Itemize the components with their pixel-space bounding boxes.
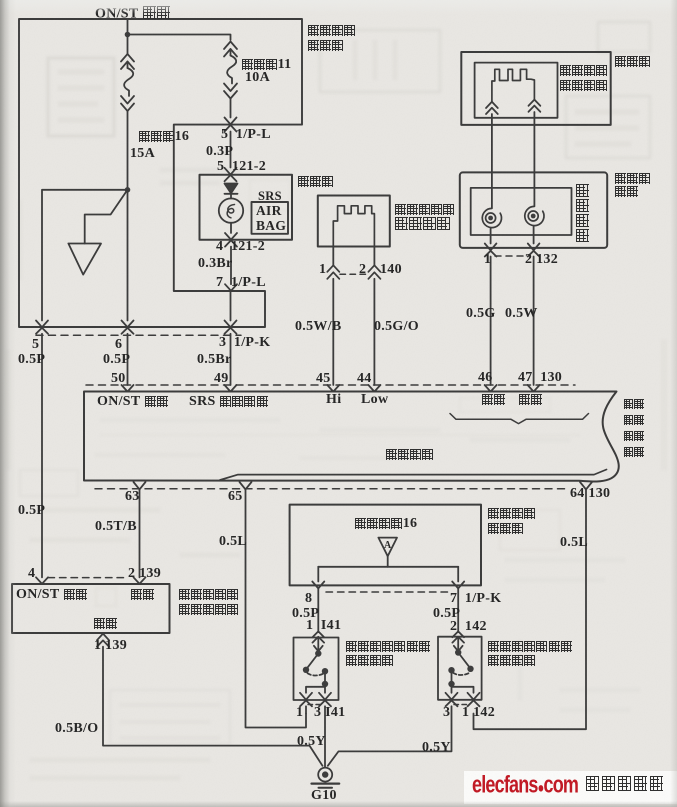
label wire 0.5L right [560, 536, 588, 550]
label wire 0.5P mid [103, 353, 130, 367]
left switch contacts and arm [303, 650, 328, 693]
label wire 0.5Y right [422, 741, 451, 755]
label ECU near side [481, 393, 505, 407]
label sensor pin 4 [28, 567, 35, 581]
ECU pin 47 arrow [528, 385, 540, 392]
label multifunction switch line1 [614, 172, 651, 186]
driver squib connector chevrons right [529, 100, 541, 112]
label ECU pin 65 [228, 490, 243, 504]
right switch pin 1 arrow at bottom edge [468, 693, 480, 707]
label ECU buckle switch [385, 448, 434, 462]
triangle connection symbol [68, 244, 101, 275]
connector 139?-dashed line below junction box [36, 334, 241, 336]
wire 0.5P pin6 to ECU pin50 [127, 334, 129, 385]
connector dashed line below bottom junction box [326, 591, 452, 593]
label ECU pin 46 [478, 371, 493, 385]
label instrument panel [297, 175, 334, 189]
label right switch pin 1 142 [462, 706, 495, 720]
wire 0.5W/B to ECU pin45 [332, 279, 334, 385]
label ECU Hi [326, 393, 341, 407]
label clock spring vertical [575, 184, 589, 200]
ECU pin 64 arrow [580, 482, 592, 489]
right switch entry wire + arrowhead [454, 638, 463, 651]
label AIR BAG [256, 204, 286, 233]
label left switch pin 1 [296, 706, 303, 720]
ECU pin 49 arrow [225, 385, 237, 392]
clock spring box 时钟弹簧 [471, 188, 572, 235]
label wire 0.5G [466, 307, 496, 321]
passenger airbag box 前排乘客侧安全气囊 [318, 196, 390, 247]
wire 0.5G down to ECU pin46 [490, 257, 492, 386]
left switch pin 1 arrow at bottom edge [300, 693, 312, 707]
label multifunction switch line2 [614, 185, 638, 199]
label airbag connector 140 [380, 263, 402, 277]
sensor pin 4 arrow [36, 577, 48, 584]
right switch contacts and arm [448, 649, 473, 693]
left switch pin 3 arrow at bottom edge [319, 693, 331, 707]
label sensor signal [130, 588, 154, 602]
wire node2 down to pin 6 [127, 190, 129, 321]
driver airbag box 驾驶员侧安全气囊 [475, 63, 558, 118]
wire 0.5L ECU65 to left buckle switch [246, 489, 307, 727]
pin 7 1/P-K arrow at box bottom edge [452, 582, 464, 589]
label sensor ground [93, 617, 117, 631]
label wire 0.5G/O [374, 320, 419, 334]
label ECU ON/ST input [97, 395, 168, 409]
ECU pin 65 arrow [240, 482, 252, 489]
label ECU pin 50 [111, 372, 126, 386]
connector 139 dashed line above sensor box [48, 577, 128, 579]
ECU pin 63 arrow [134, 482, 146, 489]
label pin 4 121-2 [216, 240, 265, 254]
wire spiral left to multifunction pin 1 [490, 229, 492, 244]
node junction dot [125, 32, 131, 38]
connector 130 dashed line across ECU top [86, 384, 575, 386]
label ECU pin 63 [125, 490, 140, 504]
clock spring spiral left [482, 208, 501, 227]
wire 0.5P pin8 down to left switch pin1 I41 [317, 588, 319, 631]
label ECU SRS warning control [189, 395, 268, 409]
label wire 0.5Y left [297, 735, 326, 749]
pin 8 arrow at box bottom edge [312, 582, 324, 589]
junction box (bottom) 前排乘客接线盒 [290, 505, 481, 586]
label driver airbag line1 [559, 64, 608, 78]
wire 0.3P down to instrument panel [230, 132, 232, 168]
right buckle switch box 前排乘客安全带扣环开关 [438, 637, 482, 700]
label driver airbag line2 [559, 79, 608, 93]
SRS control unit box 安全气囊电控单元 with torn right edge [84, 392, 619, 482]
pin 3 1/P-K arrows at junction box bottom edge [225, 321, 237, 334]
label ECU far side [518, 393, 542, 407]
wire triangle to distribution bar [387, 556, 389, 567]
wire 0.5Y right switch pin3 to ground run [328, 706, 452, 766]
fuse F16 (保险丝16 15A) connector chevrons + element [121, 35, 134, 190]
ECU pin 46 arrow [485, 385, 497, 392]
pin 5 arrows at junction box bottom edge [36, 321, 48, 334]
driver squib connector chevrons left [486, 102, 498, 114]
near/far underbrace bracket [450, 414, 589, 424]
wire node to fuse11 [128, 35, 231, 41]
label wire 0.5P switch left [292, 607, 319, 621]
label right switch pin 3 [443, 706, 450, 720]
passenger airbag pin 1 connector chevrons [327, 265, 339, 279]
junction box (top) 前排乘客接线盒 outline [19, 19, 302, 327]
node junction dot 2 [125, 187, 131, 193]
wire 0.5Y left switch pin3 to ground [324, 706, 326, 767]
pin 2 142 connector chevrons [452, 631, 464, 642]
wire 0.5P pin7 down to right switch pin2 142 [457, 588, 459, 631]
pin 1 I41 connector chevrons [313, 631, 325, 642]
label pin 8 [305, 592, 312, 606]
left buckle switch box 前排乘客安全带扣环开关 [294, 638, 339, 701]
label fuse16 name [138, 130, 189, 144]
label junction box top [307, 24, 356, 38]
label wire 0.3P [206, 145, 233, 159]
label SRS [258, 189, 282, 203]
wire 0.5T/B ECU63 to sensor pin2 [139, 489, 141, 577]
connector 130 dashed line across ECU bottom [95, 488, 568, 490]
elecfans chinese name [585, 776, 664, 794]
label wire 0.5L left [219, 535, 247, 549]
label wire 0.5W/B [295, 320, 342, 334]
clock spring spiral right [525, 206, 544, 225]
label from fuse 16 [354, 517, 417, 531]
right switch pin 3 arrow at bottom edge [446, 693, 458, 707]
label pin 3 1/P-K [219, 336, 270, 350]
elecfans watermark strip [464, 771, 677, 804]
label ECU name vertical [623, 397, 644, 411]
pin 6 arrows at junction box bottom edge [122, 321, 134, 334]
multifunction switch box 多功能开关 [460, 172, 607, 248]
distribution bar wire [318, 566, 458, 568]
wire node2 left branch down to pin 5 [42, 190, 128, 321]
label sensor ON/ST input [16, 588, 87, 602]
wire stub from top edge to node [127, 19, 129, 35]
label fuse11 name [241, 58, 291, 72]
label left switch pin 3 I41 [314, 706, 345, 720]
label pin 6 [115, 338, 122, 352]
wire inside box bump pin7 to pin3 [230, 291, 232, 321]
wire bar to pin 7 [457, 567, 459, 582]
connector I41 dashed line below switch [308, 704, 322, 706]
connector 140 dashed line [340, 273, 367, 275]
wire 0.5B/O sensor pin1 to ground run [103, 647, 323, 766]
label wire 0.5P lower left [18, 504, 45, 518]
label wire 0.3Br [198, 257, 233, 271]
passenger airbag pin 2 connector chevrons [368, 265, 380, 279]
label sensor note line1 [178, 588, 239, 602]
wire spiral right to multifunction pin 2 [533, 226, 535, 244]
label wire 0.5T/B [95, 520, 137, 534]
label passenger airbag line1 [394, 203, 455, 217]
label passenger airbag line2 [394, 217, 451, 233]
AIR BAG label box [252, 202, 289, 234]
wire bar to pin 8 [317, 567, 319, 582]
label wire 0.5Br [197, 353, 232, 367]
label left switch name [345, 640, 430, 654]
passenger airbag squib element [333, 206, 374, 247]
label pin 7 1/P-K [450, 592, 501, 606]
label fuse11 rating 10A [245, 71, 270, 85]
label ON/ST power [95, 6, 170, 22]
wire 0.5L ECU64 to right buckle switch [474, 489, 587, 729]
left switch entry wire + arrowhead [314, 638, 323, 651]
label ECU pin 45 [316, 372, 331, 386]
label sensor note line2 [178, 603, 239, 617]
wire node2 to triangle tap [85, 190, 128, 244]
label ground G10 [311, 789, 337, 803]
SRS warning lamp diode [225, 184, 238, 194]
wire box bottom to pin2 chevrons [373, 247, 375, 266]
label sensor pin 2 139 [128, 567, 161, 581]
label wire 0.5P switch right [433, 607, 460, 621]
connector 132 dashed line [495, 255, 527, 257]
label airbag pin 1 [319, 263, 326, 277]
wire 0.5Br pin3 to ECU pin49 [230, 334, 232, 385]
wire 0.5P pin5 to sensor pin4 [41, 334, 43, 578]
wire 0.5G/O to ECU pin44 [373, 279, 375, 385]
label clockspring pin 2 132 [525, 253, 558, 267]
label A in triangle [384, 539, 392, 553]
from fuse 16 triangle A symbol [378, 538, 397, 557]
label sensor pin 1 139 [94, 639, 127, 653]
sensor pin 2 139 arrow [134, 577, 146, 584]
label pin 1 I41 [306, 619, 341, 633]
elecfans logo text [472, 775, 578, 798]
wire driver airbag pin2 down to clock spring [533, 112, 535, 206]
fuse F11 (保险丝11 10A) connector chevrons + element [224, 42, 237, 118]
label clockspring pin 1 [484, 253, 491, 267]
label pin 5 1/P-L [221, 128, 271, 142]
sensor pin 1 139 chevrons below box [97, 634, 109, 647]
label pin 5 121-2 [217, 160, 266, 174]
ECU pin 45 arrow [327, 385, 339, 392]
sensor box 是否有前排乘客传感器 [12, 584, 170, 633]
label ECU pin 49 [214, 372, 229, 386]
ground G10 symbol [312, 768, 340, 788]
ECU pin 50 arrow [122, 385, 134, 392]
label pin 2 142 [450, 620, 487, 634]
steering wheel box 方向盘 [461, 52, 610, 125]
label wire 0.5W [505, 307, 538, 321]
pin 5 1/P-L arrows at box edge [225, 118, 237, 132]
label pin 5 [32, 338, 39, 352]
connector 142 dashed line below switch [454, 704, 470, 706]
label wire 0.5P left [18, 353, 45, 367]
label junction box bottom [487, 507, 536, 521]
driver airbag squib element [492, 69, 535, 101]
label ECU Low [361, 393, 388, 407]
pin 5 121-2 arrows at panel edge [225, 168, 237, 182]
label steering wheel [614, 55, 651, 69]
label wire 0.5B/O [55, 722, 98, 736]
buckle switch bracket line 扣环开关 [220, 470, 607, 481]
instrument panel box 仪表板 [200, 175, 293, 240]
wire driver airbag pin1 down to clock spring [491, 114, 493, 208]
label ECU pin 44 [357, 372, 372, 386]
label right switch name [487, 640, 572, 654]
wire left switch pin1 chevron joins 0.5L run [305, 706, 307, 713]
wire lamp to pin 4 [230, 223, 232, 233]
pin 1 arrows at multifunction bottom edge [485, 244, 497, 257]
label ECU pin 47 130 [518, 371, 562, 385]
pin 2 132 arrows at multifunction bottom edge [528, 244, 540, 257]
label ECU pin 64 130 [570, 487, 610, 501]
wire 0.5W down to ECU pin47 [533, 257, 535, 386]
label airbag pin 2 140 [359, 263, 366, 277]
label pin 7 1/P-L [216, 276, 266, 290]
wire 0.3Br down to pin 7 [230, 247, 232, 285]
pin 4 121-2 arrows at panel bottom edge [225, 233, 237, 247]
label fuse16 rating 15A [130, 147, 155, 161]
ECU pin 44 arrow [368, 385, 380, 392]
wire box bottom to pin1 chevrons [332, 247, 334, 266]
pin 7 1/P-L arrow into junction box bump [225, 284, 237, 291]
SRS warning lamp bulb [219, 198, 243, 222]
